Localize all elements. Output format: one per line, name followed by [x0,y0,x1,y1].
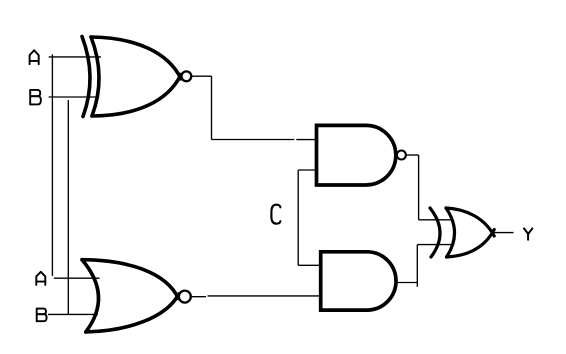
wire: A to XNOR input [49,56,101,58]
wire: lower B to NOR input [48,313,98,315]
wire: node C vertical (NAND input B to AND input A) [298,170,320,265]
wire: U5 output to Y [492,232,514,234]
label Y (output Y) [524,228,532,239]
wire: vertical from B down to lower B input [67,100,69,314]
wire: B to XNOR input [49,96,99,98]
wire: U3 output to XOR input A (right, down, right) [406,155,453,220]
NAND gate U3 [317,125,396,185]
XNOR gate U1 [82,37,181,117]
wire: vertical from A down to lower A input [51,54,53,276]
XOR gate U5 [430,208,494,257]
label B (input B, lower) [36,309,47,322]
output bubble of U3 [397,151,406,160]
output bubble of U1 [182,71,192,81]
wire: U2 output to AND input B [192,295,320,298]
wire: U1 output to NAND input A (right, down, right) [192,76,317,139]
label A (input A, lower) [36,272,45,285]
wire: U4 output to XOR input B (right, up, right) with overshoot [398,245,454,287]
NOR gate U2 [82,260,179,332]
label C (node C) [271,205,280,224]
label B (input B, upper) [29,90,41,105]
output bubble of U2 [179,291,191,303]
wire: lower A to NOR input [54,277,100,279]
AND gate U4 [321,252,396,310]
label A (input A, upper) [30,50,39,64]
